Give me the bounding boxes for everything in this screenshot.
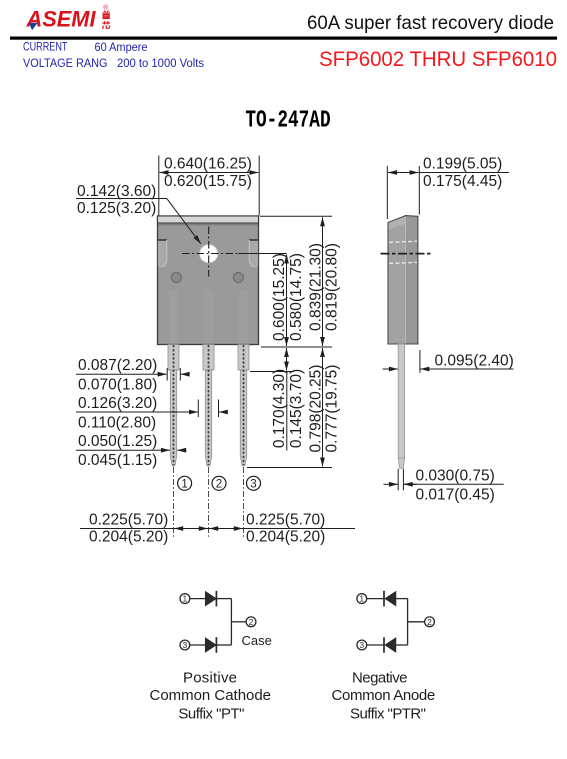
leg 3 extension line (243, 467, 245, 538)
arrow to leg1 left (158, 373, 167, 375)
side 0.095 arrow left (383, 368, 398, 370)
side lead label line (404, 483, 504, 485)
svg-text:Common Cathode: Common Cathode (150, 687, 272, 704)
svg-text:0.110(2.80): 0.110(2.80) (78, 415, 156, 432)
svg-text:0.095(2.40): 0.095(2.40) (435, 352, 514, 369)
label line 0.050 (76, 449, 163, 451)
svg-text:Negative: Negative (352, 670, 408, 687)
left pin 3 circle (180, 640, 190, 650)
right common vertical wire (407, 599, 409, 645)
svg-text:2: 2 (216, 478, 222, 490)
package body front view (158, 216, 259, 345)
svg-text:0.070(1.80): 0.070(1.80) (78, 377, 157, 394)
tick2a (197, 400, 199, 418)
hole leader line (167, 199, 201, 244)
svg-text:0.580(14.75): 0.580(14.75) (288, 253, 305, 341)
leg step extension (250, 371, 294, 373)
left pin 2 circle (246, 617, 256, 627)
package top strip (158, 216, 259, 223)
side lead tick right (402, 469, 404, 491)
side lead arrow right (404, 483, 417, 485)
right pin 1 circle (357, 594, 367, 604)
label line 0.126 (76, 411, 163, 413)
svg-text:0.050(1.25): 0.050(1.25) (78, 433, 157, 450)
svg-text:TO-247AD: TO-247AD (245, 107, 330, 134)
leg 3 wide part (238, 345, 249, 371)
diode D3R cathode bar (383, 637, 385, 653)
svg-text:60 Ampere: 60 Ampere (95, 42, 148, 54)
svg-text:0.170(4.30): 0.170(4.30) (271, 369, 288, 448)
svg-text:0.045(1.15): 0.045(1.15) (78, 452, 157, 469)
leg 1 wide part (168, 345, 179, 371)
svg-text:Common Anode: Common Anode (332, 687, 436, 704)
pin number 1 (178, 476, 192, 490)
svg-text:0.600(15.25): 0.600(15.25) (271, 253, 288, 341)
right case stub wire (408, 621, 425, 623)
arrow to leg1 narrow right (177, 449, 184, 451)
side top ext line left (386, 166, 388, 219)
diode D1 (206, 592, 216, 605)
right side notch (249, 240, 258, 268)
svg-text:Suffix "PT": Suffix "PT" (178, 706, 244, 723)
svg-text:0.017(0.45): 0.017(0.45) (416, 487, 495, 504)
svg-text:0.798(20.25): 0.798(20.25) (308, 365, 325, 453)
arrow to tick2a (163, 411, 198, 413)
side view white dashed line upper (389, 241, 417, 242)
side 0.095 label line (420, 368, 514, 370)
svg-text:Positive: Positive (183, 670, 237, 687)
tick leg1 right (179, 368, 181, 381)
side view centerline (381, 253, 433, 255)
left common vertical wire (230, 599, 232, 645)
side top label line (419, 172, 509, 174)
svg-text:0.030(0.75): 0.030(0.75) (416, 468, 495, 485)
svg-text:0.839(21.30): 0.839(21.30) (308, 243, 325, 331)
divider line 0.170/0.145 pair (286, 372, 288, 451)
hole centerline extension to dimension (239, 253, 287, 255)
wire rpin1 to diode (367, 598, 384, 600)
logo chinese char xin (102, 21, 110, 29)
wire pin3 to diode3 (190, 644, 206, 646)
hole crosshair vertical (208, 227, 210, 277)
arrow to leg1 narrow left (163, 449, 170, 451)
svg-text:60A super fast recovery diode: 60A super fast recovery diode (307, 12, 554, 34)
leg tip extension (247, 467, 332, 469)
logo blue triangle (29, 23, 38, 30)
tick leg1 left (166, 368, 168, 381)
right pin 2 circle (425, 617, 435, 627)
svg-text:2: 2 (427, 617, 432, 627)
left pin 1 circle (180, 594, 190, 604)
svg-text:1: 1 (359, 594, 364, 604)
side view leg tip (398, 458, 404, 468)
svg-text:0.125(3.20): 0.125(3.20) (77, 200, 156, 217)
bottom pitch dimension line (80, 528, 355, 530)
top width dimension line (160, 172, 259, 174)
die pad circle right (233, 273, 243, 283)
diode D1R cathode bar (383, 591, 385, 607)
svg-text:VOLTAGE RANG: VOLTAGE RANG (23, 58, 108, 70)
dim line leg length (322, 348, 324, 467)
svg-text:0.777(19.75): 0.777(19.75) (324, 365, 341, 453)
mounting hole (200, 245, 218, 263)
strip shadow line (158, 223, 258, 225)
leg 2 extension line (208, 467, 210, 538)
svg-text:0.142(3.60): 0.142(3.60) (77, 183, 156, 200)
side lead tick left (397, 469, 399, 491)
svg-text:0.199(5.05): 0.199(5.05) (423, 156, 502, 173)
header rule (10, 37, 557, 40)
side view body right face (406, 216, 418, 344)
diode D3R (386, 638, 396, 651)
left case stub wire (231, 621, 246, 623)
diode D3 cathode bar (215, 637, 217, 653)
leg 2 wide part (203, 345, 214, 371)
side 0.095 arrow right (420, 368, 432, 370)
svg-text:0.204(5.20): 0.204(5.20) (89, 529, 168, 546)
tick2b (218, 400, 220, 418)
body streak above leg 1 (169, 290, 178, 344)
right pin 3 circle (357, 640, 367, 650)
die pad circle left (171, 273, 181, 283)
label line 0.087 (76, 373, 163, 375)
side view face divide (405, 217, 407, 344)
arrow to tick2b (219, 411, 226, 413)
pitch arrows 1-2 (174, 528, 208, 530)
svg-text:Suffix "PTR": Suffix "PTR" (350, 706, 426, 723)
pin number 2 (212, 476, 226, 490)
logo chinese char shou (102, 11, 110, 19)
svg-text:Case: Case (242, 633, 272, 648)
svg-text:SFP6002 THRU SFP6010: SFP6002 THRU SFP6010 (319, 47, 557, 71)
svg-text:0.640(16.25): 0.640(16.25) (164, 156, 252, 173)
leg 3 centerline dotted (243, 345, 245, 465)
top width extension line left (158, 156, 160, 216)
svg-text:2: 2 (249, 617, 254, 627)
left side notch (158, 240, 167, 268)
svg-text:ASEMI: ASEMI (26, 7, 97, 32)
wire diode1 to node (216, 598, 231, 600)
wire diodeR3 to node (396, 644, 408, 646)
leg 1 centerline dotted (173, 345, 175, 465)
wire rpin3 to diode (367, 644, 384, 646)
svg-text:0.620(15.75): 0.620(15.75) (164, 173, 252, 190)
side lead arrow left (384, 483, 398, 485)
wire pin1 to diode1 (190, 598, 206, 600)
dim line leg step (286, 348, 288, 371)
svg-text:0.175(4.45): 0.175(4.45) (423, 173, 502, 190)
wire diodeR1 to node (396, 598, 408, 600)
svg-text:CURRENT: CURRENT (23, 42, 68, 54)
side 0.095 ext tick (419, 350, 421, 373)
svg-text:1: 1 (183, 594, 188, 604)
leg 2 centerline dotted (208, 345, 210, 465)
pin number 3 (247, 476, 261, 490)
svg-text:0.087(2.20): 0.087(2.20) (78, 357, 157, 374)
svg-text:0.126(3.20): 0.126(3.20) (78, 395, 157, 412)
wire diode3 to node (216, 644, 231, 646)
svg-text:0.225(5.70): 0.225(5.70) (89, 512, 168, 529)
diode D1 cathode bar (215, 591, 217, 607)
leg 2 narrow part (205, 370, 211, 466)
hole crosshair horizontal (182, 253, 239, 255)
body bottom extension (261, 346, 332, 348)
side view leg (398, 344, 404, 458)
side top ext line right (418, 166, 420, 215)
top width extension line right (258, 156, 260, 216)
side view top highlight wedge (389, 216, 406, 229)
dim line body height (322, 217, 324, 346)
svg-text:3: 3 (183, 640, 188, 650)
svg-text:0.145(3.70): 0.145(3.70) (288, 369, 305, 448)
leg 3 narrow part (240, 370, 246, 466)
body streak above leg 2 (204, 290, 213, 344)
body streak above leg 3 (239, 290, 248, 344)
svg-text:0.819(20.80): 0.819(20.80) (324, 243, 341, 331)
side view white dashed line lower (389, 262, 417, 263)
pitch arrows 2-3 (209, 528, 243, 530)
svg-text:3: 3 (250, 478, 256, 490)
hole label underline (76, 198, 167, 200)
side top dim line (388, 172, 419, 174)
svg-text:0.225(5.70): 0.225(5.70) (246, 512, 325, 529)
svg-text:200 to 1000 Volts: 200 to 1000 Volts (117, 58, 204, 70)
svg-text:0.204(5.20): 0.204(5.20) (246, 529, 325, 546)
dim line hole-to-bottom (286, 255, 288, 347)
leg 1 narrow part (170, 370, 176, 466)
arrow to leg1 right (181, 373, 188, 375)
svg-text:1: 1 (181, 478, 187, 490)
leg 1 extension line (173, 467, 175, 538)
svg-text:3: 3 (359, 640, 364, 650)
body height extension top (260, 215, 332, 217)
svg-text:®: ® (103, 3, 108, 11)
side view body left face (388, 216, 406, 344)
diode D1R (386, 592, 396, 605)
diode D3 (206, 638, 216, 651)
